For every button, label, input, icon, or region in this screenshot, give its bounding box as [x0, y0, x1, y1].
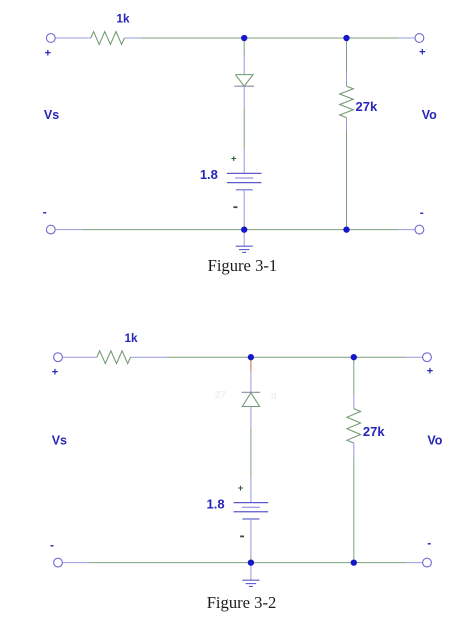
svg-text:Vo: Vo [422, 108, 437, 122]
svg-text:d: d [271, 391, 277, 401]
svg-text:-: - [50, 538, 54, 552]
svg-text:+: + [419, 47, 425, 59]
svg-text:1k: 1k [125, 331, 139, 345]
svg-text:Vo: Vo [427, 433, 442, 447]
svg-text:-: - [43, 205, 47, 219]
svg-text:Figure 3-2: Figure 3-2 [207, 593, 277, 612]
svg-text:1k: 1k [116, 12, 130, 26]
svg-text:+: + [238, 483, 244, 494]
svg-text:+: + [427, 366, 433, 378]
svg-text:1.8: 1.8 [207, 496, 225, 511]
svg-text:Vs: Vs [44, 108, 59, 122]
svg-text:Vs: Vs [52, 433, 67, 447]
svg-text:+: + [45, 47, 51, 59]
svg-text:-: - [420, 205, 424, 219]
svg-text:27k: 27k [363, 424, 385, 439]
svg-text:Figure 3-1: Figure 3-1 [208, 256, 278, 275]
svg-text:1.8: 1.8 [200, 167, 218, 182]
svg-text:+: + [231, 154, 237, 165]
svg-text:-: - [427, 536, 431, 550]
svg-text:+: + [52, 367, 58, 379]
svg-text:27k: 27k [356, 99, 378, 114]
svg-text:27: 27 [215, 390, 227, 401]
